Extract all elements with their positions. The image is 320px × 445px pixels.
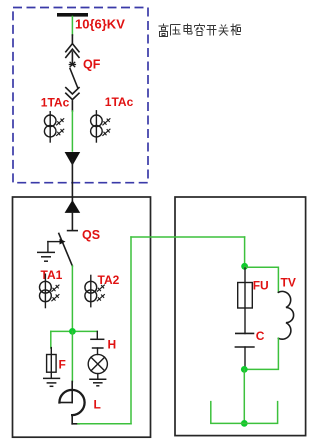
wire to fuse F (green)	[50, 331, 52, 348]
ground (QS earthing switch)	[37, 252, 55, 261]
wire busbar drop (green)	[71, 17, 73, 36]
lamp H	[88, 354, 107, 373]
voltage transformer TV winding	[278, 291, 293, 339]
current transformer TA2	[85, 275, 105, 306]
reactor L	[59, 382, 84, 424]
wire crossover to TV cubicle (green)	[131, 236, 245, 238]
svg-text:QS: QS	[82, 228, 100, 242]
fuse FU	[238, 268, 253, 334]
svg-text:C: C	[256, 329, 265, 343]
svg-text:1TAc: 1TAc	[105, 95, 134, 109]
wire junction to reactor (green)	[71, 331, 73, 381]
wire node to TV (green)	[245, 267, 279, 292]
junction node (top of FU)	[241, 263, 248, 270]
fuse F	[47, 348, 57, 378]
wire branch (green horizontal)	[51, 330, 98, 332]
wire TV bottom (green)	[244, 338, 278, 369]
wire to lamp branch	[96, 331, 98, 339]
disconnector QS with earthing position	[48, 231, 77, 266]
plug contact arrow (down)	[65, 152, 81, 166]
wire QS to junction (green)	[71, 266, 73, 331]
current transformer TA1	[40, 274, 60, 307]
svg-text:TV: TV	[281, 276, 296, 290]
wire down to node (green)	[244, 237, 246, 266]
svg-text:10{6}KV: 10{6}KV	[75, 17, 125, 32]
wire capacitor to node	[244, 347, 246, 367]
ground (below H)	[89, 379, 106, 386]
wire lamp to ground	[97, 374, 99, 379]
cabinet outline right (TV compartment)	[175, 197, 306, 436]
label 高压电容开关柜	[159, 24, 241, 37]
wire (green segment above plug)	[71, 111, 73, 151]
svg-text:L: L	[94, 398, 101, 412]
current transformer 1TAc right	[91, 111, 111, 142]
breaker QF (withdrawable: chevrons + X contact + blade)	[66, 44, 79, 100]
wire to QS	[71, 212, 73, 230]
earthing bus (green)	[211, 402, 278, 424]
dashed cabinet outline (withdrawable breaker cubicle)	[13, 8, 148, 183]
wire through cubicle floor	[71, 160, 73, 201]
wire below breaker	[71, 101, 73, 111]
svg-text:1TAc: 1TAc	[41, 96, 70, 110]
svg-text:QF: QF	[83, 58, 101, 72]
junction node (earth bus)	[241, 420, 248, 427]
svg-text:FU: FU	[253, 279, 269, 293]
connecting gap (two bars)	[90, 339, 104, 348]
svg-text:TA2: TA2	[98, 273, 120, 287]
wire node to earth bus (green)	[243, 369, 245, 423]
ground (below F)	[43, 378, 60, 386]
svg-text:H: H	[108, 338, 117, 352]
svg-text:TA1: TA1	[41, 268, 63, 282]
wire to breaker	[71, 35, 73, 44]
busbar 10kV	[57, 13, 88, 17]
wire reactor to right riser	[72, 423, 79, 425]
wire bar to lamp	[97, 348, 99, 355]
capacitor C	[235, 333, 255, 347]
cabinet outline left (QS compartment)	[13, 197, 151, 437]
wire riser (green, up right side of left box)	[130, 237, 132, 424]
svg-text:F: F	[59, 358, 66, 372]
plug contact arrow (up)	[65, 200, 81, 213]
current transformer 1TAc left	[44, 112, 64, 142]
junction node	[69, 328, 76, 335]
junction node (below C)	[241, 366, 248, 373]
